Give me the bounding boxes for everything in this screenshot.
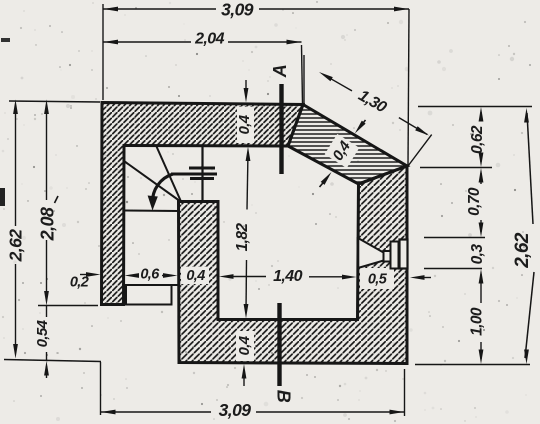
ext line right y106 (418, 106, 532, 108)
scan dash top-left (1, 38, 10, 42)
dim 1,40 line (225, 276, 266, 278)
walk-line arrowhead (148, 196, 158, 211)
dim 3,09 top line (103, 8, 216, 10)
dim 2,08 line (46, 105, 48, 200)
label gap speaker wall 0,5 (360, 268, 394, 289)
ext line left top horizontal (9, 101, 100, 102)
section line A (279, 84, 283, 174)
tail below 0,54 arrow (46, 366, 48, 378)
dim 0,4 top wall arrow (245, 80, 247, 96)
ext line left mid horizontal (38, 305, 98, 307)
svg-text:2,62: 2,62 (6, 229, 26, 263)
scan blob left edge (0, 188, 5, 206)
label gap bottom wall (236, 331, 254, 361)
scan speckles (175, 64, 177, 66)
svg-text:0,6: 0,6 (140, 266, 160, 282)
dim 0,5 right arrow (410, 275, 425, 280)
loudspeaker voice-coil box (384, 251, 391, 262)
ext line top-left vertical (102, 4, 104, 100)
svg-text:0,5: 0,5 (368, 271, 388, 287)
label gap chamfer wall (325, 134, 360, 168)
ext line right y167 (420, 167, 492, 169)
tread line (124, 210, 179, 213)
dim 3,09 bottom line (101, 411, 212, 413)
svg-text:0,62: 0,62 (469, 125, 486, 154)
wall right+bottom+block (hatched) (179, 166, 408, 364)
ext line right bottom y364 (415, 364, 530, 366)
wall top-left L (hatched) (102, 103, 304, 305)
damper stem vertical (201, 147, 203, 203)
ext line right y237 (424, 237, 485, 239)
svg-text:0,2: 0,2 (70, 274, 89, 290)
damper bar 2 (171, 173, 217, 176)
svg-text:2,08: 2,08 (37, 207, 57, 241)
walk-line arc (152, 174, 173, 203)
svg-text:B: B (273, 390, 293, 403)
ext line 2,04 right (302, 45, 303, 104)
dim 0,62 line (480, 112, 482, 120)
step sill box (126, 285, 172, 305)
dim 1,82 line (247, 152, 248, 210)
svg-text:2,04: 2,04 (194, 31, 224, 48)
ext line right y268 (424, 268, 482, 270)
damper bar 3 (190, 177, 214, 180)
svg-text:2,62: 2,62 (512, 232, 533, 269)
dim 0,6 line (130, 275, 137, 277)
dim 1,30 line (330, 78, 352, 90)
section line B (277, 303, 281, 386)
wall chamfer band (hatched) (288, 105, 407, 185)
svg-text:0,54: 0,54 (34, 319, 51, 347)
ext line bottom-left vertical (100, 362, 102, 415)
damper bar 1 (189, 167, 215, 170)
svg-text:0,4: 0,4 (236, 114, 253, 134)
loudspeaker cone (358, 238, 384, 268)
dim 0,4 bottom wall arrow (243, 370, 245, 386)
ext line 1,30 right tick (408, 135, 432, 166)
dim 2,62 left line (15, 105, 17, 226)
svg-text:0,70: 0,70 (466, 187, 483, 216)
arrow chamfer inner (320, 181, 326, 188)
ext line top-right vertical (408, 9, 409, 166)
tick after 2,08 (55, 196, 59, 203)
wall inner face over speaker mouth (357, 237, 360, 269)
dim 2,62 right line (527, 113, 533, 224)
dim 1,00 line (480, 274, 482, 303)
dim 0,2 arrow (80, 274, 92, 276)
fan line 2 (124, 161, 181, 202)
dim 0,54 line (46, 306, 48, 317)
ext line left bottom horizontal (4, 360, 101, 362)
loudspeaker frame box (391, 242, 399, 269)
step sill top line (122, 284, 178, 286)
svg-text:1,82: 1,82 (234, 223, 251, 252)
svg-text:1,00: 1,00 (469, 307, 486, 336)
arrow chamfer outer (360, 120, 366, 128)
label gap top wall (237, 107, 254, 143)
svg-text:3,09: 3,09 (219, 400, 252, 420)
svg-text:0,4: 0,4 (236, 335, 253, 355)
svg-text:1,40: 1,40 (273, 268, 302, 285)
ext line 1,30 left vertical (303, 55, 305, 104)
svg-text:0,4: 0,4 (186, 268, 205, 284)
svg-text:A: A (270, 65, 290, 78)
label gap block (181, 267, 209, 284)
svg-text:0,3: 0,3 (469, 244, 486, 265)
svg-text:3,09: 3,09 (221, 0, 254, 20)
fan line 1 (157, 147, 182, 202)
dim 0,70 line (480, 173, 482, 184)
loudspeaker magnet box (400, 240, 408, 269)
dim 2,04 line (103, 41, 191, 43)
ext line bottom-right vertical (404, 369, 406, 416)
